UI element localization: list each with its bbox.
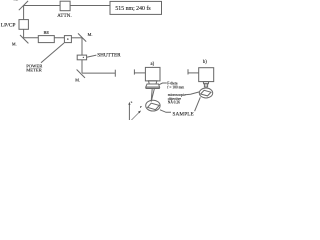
svg-text:M.: M. [75, 78, 80, 83]
svg-text:b): b) [203, 60, 207, 65]
svg-text:f = 100 mm: f = 100 mm [167, 86, 184, 90]
svg-text:SHUTTER: SHUTTER [97, 53, 121, 59]
svg-text:y: y [140, 105, 142, 109]
svg-text:NA 0.26: NA 0.26 [168, 101, 180, 105]
svg-text:BE: BE [43, 30, 49, 35]
svg-text:SAMPLE: SAMPLE [173, 111, 194, 117]
svg-text:M.: M. [12, 42, 17, 47]
svg-text:a): a) [151, 62, 155, 67]
svg-text:M.: M. [87, 32, 92, 37]
svg-text:LP/CP: LP/CP [1, 22, 16, 28]
svg-text:515 nm; 240 fs: 515 nm; 240 fs [115, 5, 151, 12]
svg-text:METER: METER [26, 68, 43, 73]
svg-text:ATTN.: ATTN. [57, 14, 72, 19]
svg-text:M.: M. [14, 0, 19, 2]
